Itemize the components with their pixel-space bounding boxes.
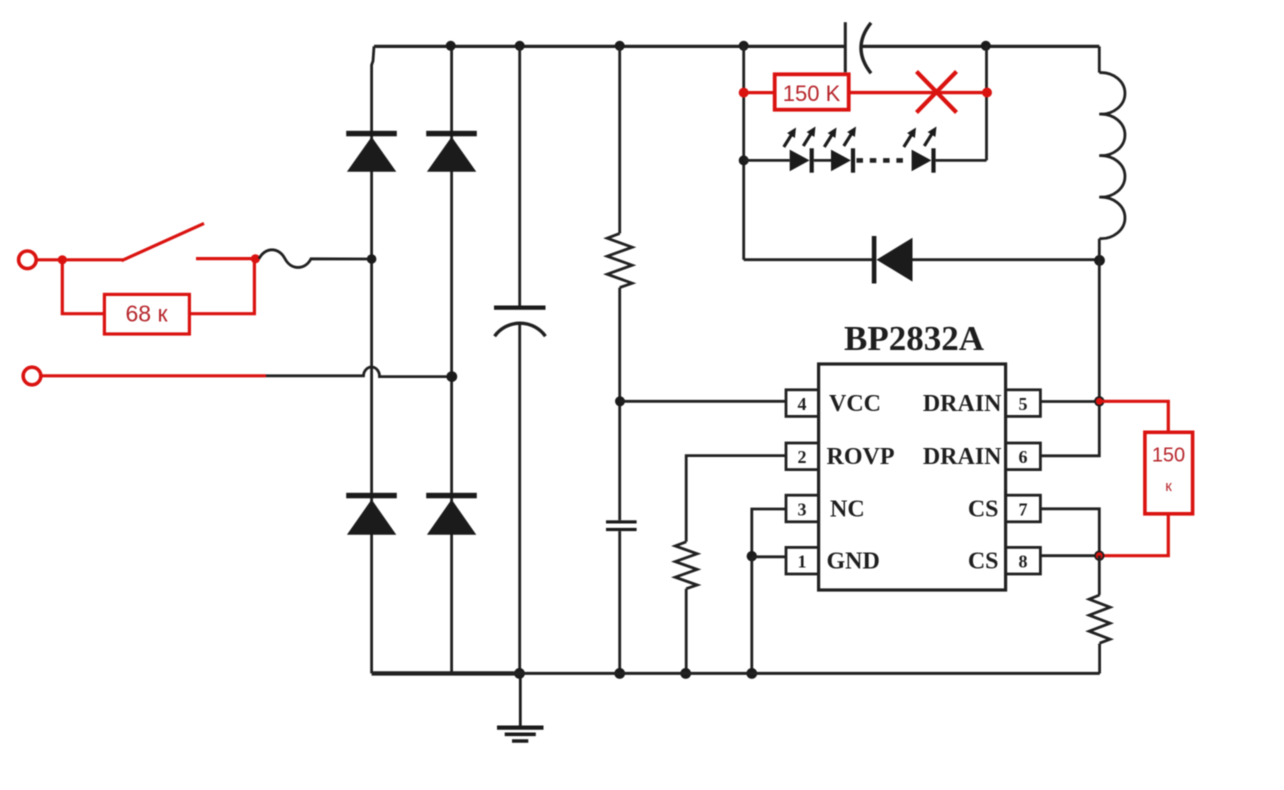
wire top bus left segment	[374, 45, 845, 48]
wire ROVP pin2	[686, 456, 786, 542]
diode D4	[426, 493, 477, 535]
node LED string left junction	[739, 155, 749, 165]
svg-text:150 K: 150 K	[783, 81, 841, 106]
wire GND to bottom bus	[750, 556, 753, 673]
diode D1	[346, 131, 397, 172]
svg-text:6: 6	[1019, 447, 1028, 467]
node neutral-bridge junction	[446, 371, 457, 382]
pin label VCC	[829, 391, 881, 417]
resistor R6 (current sense)	[1089, 595, 1110, 643]
node top bus junctions	[446, 41, 991, 51]
ground	[497, 673, 544, 741]
node VCC junction	[615, 396, 625, 406]
wire red to crossed resistor	[744, 91, 775, 94]
node crossed resistor right (red)	[982, 88, 992, 98]
wire neutral black with hop	[266, 367, 452, 377]
LED D6	[784, 127, 816, 173]
wire red CS resistor bottom	[1099, 514, 1168, 556]
wire VCC pin4	[620, 400, 786, 403]
pin label GND	[827, 549, 880, 575]
svg-text:4: 4	[798, 394, 807, 414]
resistor R5 68 k	[104, 294, 189, 334]
svg-text:68 к: 68 к	[125, 301, 168, 327]
wire startup branch lower	[618, 288, 621, 521]
wire output loop right vertical	[985, 46, 988, 161]
pin 2	[786, 443, 819, 470]
wire R3 to bottom bus	[685, 589, 688, 674]
svg-text:BP2832A: BP2832A	[844, 319, 985, 358]
svg-text:к: к	[1165, 478, 1172, 495]
wire startup branch upper	[618, 46, 621, 234]
svg-text:GND: GND	[827, 549, 880, 575]
wire CS to sense resistor	[1098, 556, 1101, 595]
pin 6	[1006, 443, 1041, 470]
svg-text:5: 5	[1019, 394, 1028, 414]
node drain junction	[1094, 396, 1104, 406]
node switch right junction	[251, 254, 260, 263]
node fuse-bridge junction	[367, 254, 377, 264]
pin 3	[786, 495, 819, 522]
svg-text:8: 8	[1019, 552, 1028, 572]
wire GND pin1	[752, 555, 786, 558]
chip U1 BP2832A	[819, 319, 1006, 590]
node R3 bottom junction	[680, 668, 691, 679]
cross-out X mark	[917, 72, 957, 113]
wire bottom bus	[372, 671, 1100, 675]
node live junction	[58, 255, 67, 264]
svg-text:1: 1	[798, 552, 807, 572]
svg-text:DRAIN: DRAIN	[923, 391, 1002, 417]
svg-text:CS: CS	[968, 496, 999, 522]
wire drain vertical	[1098, 260, 1101, 401]
inductor L1	[1099, 46, 1125, 260]
pin 5	[1006, 390, 1041, 417]
wire red crossed resistor to right node	[849, 91, 986, 94]
terminal neutral input	[23, 367, 41, 385]
wire 68k left drop	[62, 260, 104, 314]
fuse F1	[259, 250, 372, 268]
capacitor C3	[606, 520, 637, 531]
pin label DRAIN 5	[923, 391, 1002, 417]
terminal line input	[19, 251, 37, 269]
pin 4	[786, 390, 819, 417]
node startup bottom junction	[614, 668, 625, 679]
wire 68k right rise	[189, 260, 254, 314]
node GND bottom junction	[746, 668, 757, 679]
resistor R3 (ROVP)	[675, 542, 697, 589]
svg-text:CS: CS	[968, 549, 999, 575]
wire pin7	[1040, 509, 1099, 556]
resistor R4 150 k (CS)	[1145, 432, 1193, 514]
wire live input	[37, 258, 124, 261]
svg-text:150: 150	[1152, 445, 1185, 467]
pin 1	[786, 547, 819, 574]
node NC-GND junction	[747, 551, 757, 561]
node C1 bottom junction	[514, 668, 525, 679]
wire NC pin3	[752, 509, 786, 556]
wire pin6 drain	[1040, 402, 1099, 456]
wire red to CS resistor top	[1099, 401, 1168, 432]
svg-text:NC: NC	[830, 496, 865, 522]
capacitor C1 (bulk, polarized)	[494, 46, 546, 674]
wire sense resistor to bottom bus	[1098, 644, 1101, 674]
switch SW1 (open)	[122, 223, 256, 260]
wire neutral red	[41, 374, 266, 377]
wire bridge left leg	[372, 46, 374, 673]
wire output loop left vertical	[742, 46, 745, 260]
LED D7	[824, 127, 856, 173]
resistor R1 (startup)	[607, 233, 632, 287]
wire freewheel row right	[913, 258, 1100, 261]
pin 8	[1006, 547, 1041, 574]
pin 7	[1006, 495, 1041, 522]
wire pin8	[1040, 554, 1099, 557]
svg-text:DRAIN: DRAIN	[923, 444, 1002, 470]
diode D2	[426, 131, 477, 172]
diode D5 (freewheel)	[872, 236, 913, 284]
wire C3 to bottom bus	[618, 531, 621, 673]
pin label ROVP	[827, 444, 895, 470]
svg-text:ROVP: ROVP	[827, 444, 895, 470]
node CS junction	[1094, 551, 1104, 561]
wire pin5 drain	[1040, 400, 1099, 403]
svg-text:3: 3	[798, 499, 807, 519]
capacitor C2 (series, on top bus)	[845, 22, 871, 73]
svg-text:7: 7	[1019, 499, 1028, 519]
wire LED row lead-in	[744, 159, 790, 162]
wire bridge right leg	[450, 46, 453, 674]
pin label NC	[830, 496, 865, 522]
node crossed resistor left (red)	[739, 88, 749, 98]
wire LED dotted (omitted LEDs)	[857, 158, 910, 163]
diode D3	[346, 493, 397, 535]
pin label DRAIN 6	[923, 444, 1002, 470]
resistor R2 150 K (crossed out)	[775, 74, 849, 109]
wire top bus right segment	[860, 45, 1100, 48]
pin label CS 7	[968, 496, 999, 522]
LED D8	[904, 127, 937, 173]
pin label CS 8	[968, 549, 999, 575]
svg-text:VCC: VCC	[829, 391, 881, 417]
wire freewheel row left	[744, 258, 872, 261]
node inductor bottom junction	[1094, 255, 1105, 266]
wire LED row lead-out	[936, 159, 987, 162]
wire LED link	[814, 159, 831, 162]
svg-text:2: 2	[798, 447, 807, 467]
